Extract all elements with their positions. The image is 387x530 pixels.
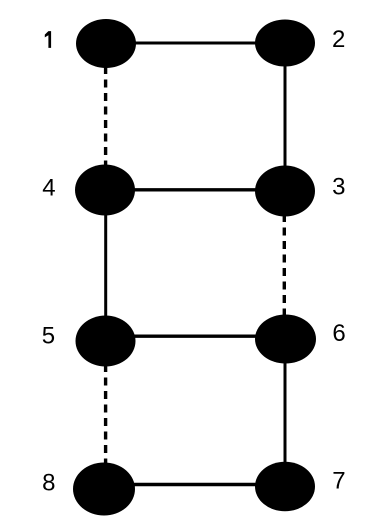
svg-text:5: 5 (42, 322, 55, 349)
svg-text:2: 2 (332, 26, 345, 53)
svg-text:8: 8 (42, 469, 55, 496)
svg-text:4: 4 (42, 175, 55, 202)
svg-text:7: 7 (332, 468, 345, 495)
svg-text:3: 3 (332, 174, 345, 201)
svg-text:6: 6 (332, 320, 345, 347)
